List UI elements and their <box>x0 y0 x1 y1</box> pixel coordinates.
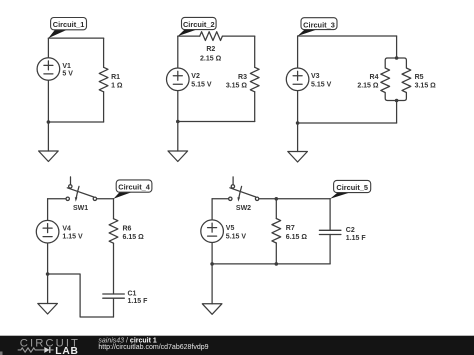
wire top-left C2 <box>178 35 200 37</box>
wire ground stem C2 <box>177 122 179 152</box>
svg-text:V3: V3 <box>311 73 320 80</box>
wire ground stem C4 <box>47 274 49 304</box>
wire left lower C1 <box>47 81 49 123</box>
svg-text:2.15 Ω: 2.15 Ω <box>357 83 379 90</box>
wire bottom C5 <box>212 263 330 265</box>
wire R7 upper C5 <box>275 199 277 219</box>
wire ground stem C3 <box>297 123 299 152</box>
voltage source V5 <box>201 220 224 243</box>
svg-text:R4: R4 <box>370 74 379 81</box>
wire bottom C3 <box>298 122 397 124</box>
svg-text:5.15 V: 5.15 V <box>191 81 212 88</box>
svg-text:5 V: 5 V <box>62 71 73 78</box>
wire below cap C4 <box>113 298 115 317</box>
svg-text:LAB: LAB <box>55 346 78 355</box>
wire right upper C1 <box>103 38 105 67</box>
ground C2 <box>168 151 188 162</box>
ground C3 <box>288 152 308 163</box>
voltage source V4 <box>36 220 59 243</box>
svg-text:SW1: SW1 <box>73 205 88 212</box>
wire ground stem C5 <box>211 264 213 304</box>
resistor R6 <box>109 219 118 243</box>
wire top C3 <box>298 35 397 37</box>
svg-text:Circuit_1: Circuit_1 <box>53 20 85 29</box>
svg-text:6.15 Ω: 6.15 Ω <box>286 234 308 241</box>
wire bottom C1 <box>48 121 103 123</box>
svg-text:R2: R2 <box>206 46 215 53</box>
svg-text:2.15 Ω: 2.15 Ω <box>200 56 222 63</box>
wire C2 lower C5 <box>329 235 331 264</box>
logo resistor zigzag <box>18 348 40 352</box>
logo diode <box>44 347 49 353</box>
svg-text:R5: R5 <box>415 74 424 81</box>
wire left upper C3 <box>297 36 299 68</box>
svg-text:R3: R3 <box>238 74 247 81</box>
svg-text:Circuit_3: Circuit_3 <box>303 20 335 29</box>
wire top-right C4 <box>97 198 114 200</box>
wire right upper C2 <box>254 36 256 67</box>
svg-text:C1: C1 <box>128 291 137 298</box>
svg-text:Circuit_4: Circuit_4 <box>118 183 151 192</box>
node junction C4 <box>46 272 50 276</box>
node label Circuit_5 <box>330 180 371 198</box>
node label Circuit_3 <box>298 18 337 36</box>
capacitor C2 <box>319 230 341 234</box>
node junction C2 <box>176 120 180 124</box>
wire bottom C2 <box>178 121 255 123</box>
svg-text:3.15 Ω: 3.15 Ω <box>415 83 437 90</box>
wire top-left C5 <box>212 198 229 200</box>
svg-text:V5: V5 <box>226 225 235 232</box>
resistor R1 <box>99 67 108 92</box>
wire R7 lower C5 <box>275 243 277 264</box>
node label Circuit_2 <box>178 17 216 36</box>
voltage source V2 <box>167 68 190 91</box>
svg-text:1.15 V: 1.15 V <box>62 234 83 241</box>
wire left lower C5 <box>211 243 213 264</box>
node junction left C5 <box>210 262 214 266</box>
node R7 bottom C5 <box>275 262 279 266</box>
ground C4 <box>38 304 58 315</box>
svg-text:Circuit_5: Circuit_5 <box>336 183 368 192</box>
wire C2 upper C5 <box>329 199 331 231</box>
svg-text:SW2: SW2 <box>236 205 251 212</box>
wire right lower C1 <box>103 92 105 122</box>
svg-text:1.15 F: 1.15 F <box>128 298 149 305</box>
svg-text:http://circuitlab.com/cd7ab628: http://circuitlab.com/cd7ab628fvdp9 <box>98 344 208 351</box>
wire left upper C2 <box>177 36 179 68</box>
switch SW2 <box>229 177 259 202</box>
wire left upper C5 <box>211 199 213 220</box>
svg-text:1 Ω: 1 Ω <box>111 83 123 90</box>
svg-text:5.15 V: 5.15 V <box>311 81 332 88</box>
svg-text:V1: V1 <box>62 63 71 70</box>
resistor R3 <box>250 67 259 92</box>
resistor R2 <box>200 32 223 41</box>
ground C1 <box>39 151 59 162</box>
voltage source V3 <box>286 68 309 91</box>
capacitor C1 <box>103 294 125 298</box>
node parallel bottom C3 <box>395 99 399 103</box>
node label Circuit_4 <box>114 180 152 199</box>
wire right upper C3 <box>396 36 398 58</box>
svg-text:3.15 Ω: 3.15 Ω <box>226 83 248 90</box>
wire bottom path C4 <box>48 274 114 317</box>
wire left lower C4 <box>47 243 49 274</box>
node junction C1 <box>47 120 51 124</box>
svg-text:V2: V2 <box>191 73 200 80</box>
node label Circuit_1 <box>48 18 86 39</box>
svg-text:R7: R7 <box>286 225 295 232</box>
wire ground stem C1 <box>47 122 49 151</box>
wire mid C4 <box>113 243 115 294</box>
resistor R5 <box>397 58 411 101</box>
wire top C1 <box>48 37 103 39</box>
wire right lower C3 <box>396 101 398 124</box>
resistor R4 <box>381 58 397 101</box>
wire right lower C2 <box>254 92 256 122</box>
resistor R7 <box>272 219 281 243</box>
wire left upper C4 <box>47 199 49 220</box>
wire right upper C4 <box>113 199 115 219</box>
voltage source V1 <box>37 58 60 81</box>
wire top-left C4 <box>48 198 66 200</box>
node junction C3 <box>296 121 300 125</box>
svg-text:C2: C2 <box>346 227 355 234</box>
svg-text:1.15 F: 1.15 F <box>346 235 367 242</box>
wire left lower C2 <box>177 91 179 122</box>
node R7 top C5 <box>275 197 279 201</box>
wire left lower C3 <box>297 91 299 123</box>
svg-text:5.15 V: 5.15 V <box>226 233 247 240</box>
ground C5 <box>202 304 222 315</box>
wire left upper C1 <box>47 38 49 57</box>
svg-text:V4: V4 <box>62 225 71 232</box>
switch SW1 <box>66 177 97 202</box>
svg-text:Circuit_2: Circuit_2 <box>183 20 215 29</box>
svg-text:R6: R6 <box>123 225 132 232</box>
node parallel top C3 <box>395 56 399 60</box>
wire top-right C2 <box>222 35 254 37</box>
wire top-right C5 <box>259 198 330 200</box>
svg-text:6.15 Ω: 6.15 Ω <box>123 234 145 241</box>
svg-text:R1: R1 <box>111 74 120 81</box>
